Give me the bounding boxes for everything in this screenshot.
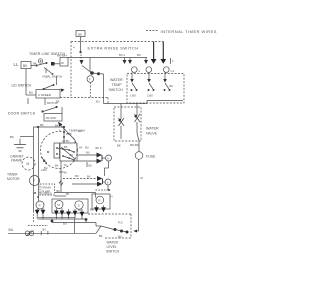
main box top edge: [34, 126, 65, 128]
svg-text:BK: BK: [90, 208, 94, 212]
vertical from terminal 6 down: [108, 161, 110, 168]
svg-text:VALVE: VALVE: [146, 132, 158, 136]
tick: [170, 58, 172, 64]
junction dot: [79, 51, 81, 53]
svg-text:WATER: WATER: [146, 127, 159, 131]
water valve feed line: [104, 103, 148, 105]
bus wire y57: [68, 57, 147, 59]
motor block box: [52, 199, 88, 213]
svg-text:BU: BU: [75, 174, 79, 178]
contacts in cam block: [56, 147, 58, 149]
svg-text:BU: BU: [29, 91, 33, 95]
svg-text:S: S: [78, 204, 80, 208]
svg-text:BU: BU: [96, 100, 100, 104]
cam block down wire: [60, 161, 62, 193]
svg-text:BK: BK: [57, 189, 61, 193]
junction blob: [51, 220, 54, 223]
svg-text:FUSE: FUSE: [146, 155, 156, 159]
drain pump dashed box: [40, 184, 55, 195]
coil 1: [118, 104, 124, 140]
svg-text:BU 6: BU 6: [96, 146, 102, 150]
stubs from arrows to bus: [36, 214, 38, 219]
svg-text:1 BU: 1 BU: [130, 94, 136, 98]
svg-text:1-2: 1-2: [170, 69, 174, 73]
diagonal wire to cam block: [58, 123, 75, 141]
timer dashed box left edge: [70, 42, 72, 97]
motor circle S: [75, 201, 83, 209]
water temp feed drops: [124, 58, 126, 61]
terminal box: [60, 58, 68, 67]
svg-text:H: H: [111, 195, 113, 199]
speed box: [36, 90, 60, 99]
svg-text:RD-BK: RD-BK: [130, 143, 139, 147]
svg-text:BU: BU: [137, 53, 141, 57]
svg-text:M: M: [27, 162, 30, 166]
timer dashed box bottom edge: [60, 97, 108, 99]
svg-text:LID SWITCH: LID SWITCH: [12, 84, 32, 88]
wire: [92, 73, 104, 74]
svg-text:BK: BK: [64, 145, 68, 149]
main box left edge: [33, 127, 35, 211]
internal timer wires leader: [146, 30, 158, 32]
svg-text:MOTOR: MOTOR: [7, 177, 20, 181]
svg-text:FRAME: FRAME: [11, 159, 22, 163]
motor R box: [92, 194, 110, 209]
svg-text:LEVEL: LEVEL: [107, 245, 117, 249]
wire LL down: [25, 69, 27, 96]
wire below speed box: [27, 98, 29, 104]
svg-text:BU: BU: [9, 228, 14, 232]
lamp wire down: [89, 82, 91, 97]
svg-text:BU: BU: [85, 146, 89, 150]
timer line switch blade: [31, 65, 37, 67]
LL terminal box: [21, 62, 31, 69]
water valve dashed box: [114, 107, 141, 141]
extra rinse switch blade: [82, 66, 91, 73]
terminal box BK top: [76, 31, 85, 37]
lower bus: [52, 222, 96, 224]
door switch assembly: [44, 98, 46, 105]
motor circle R: [96, 196, 104, 204]
svg-text:BK: BK: [55, 124, 59, 128]
svg-text:DOOR SWITCH: DOOR SWITCH: [8, 112, 36, 116]
svg-text:4A: 4A: [64, 163, 67, 167]
pump wires right: [55, 192, 96, 194]
cam feed wire: [63, 127, 65, 143]
svg-text:BU: BU: [89, 165, 93, 168]
svg-text:BU: BU: [63, 222, 67, 226]
svg-text:W: W: [61, 61, 64, 65]
svg-text:TIMER: TIMER: [7, 173, 18, 177]
water temp contacts 1: [130, 72, 138, 97]
svg-text:BK: BK: [10, 135, 14, 139]
svg-text:BK: BK: [117, 144, 121, 148]
motor circle P: [36, 201, 44, 209]
svg-text:4 BU: 4 BU: [41, 168, 47, 172]
svg-text:BK: BK: [87, 175, 91, 179]
svg-text:SWITCH: SWITCH: [109, 88, 124, 92]
fuse: [135, 152, 143, 160]
svg-text:INTERNAL TIMER WIRES: INTERNAL TIMER WIRES: [161, 29, 217, 34]
water temp terminal circles: [132, 67, 138, 73]
svg-text:4 SPEED: 4 SPEED: [38, 93, 52, 97]
wire to term box: [55, 63, 61, 65]
ps box dashed top: [88, 213, 131, 215]
svg-text:TEMP: TEMP: [112, 83, 123, 87]
cam switch rect B: [60, 143, 77, 161]
timer motor circle: [22, 157, 35, 170]
svg-text:BK: BK: [99, 234, 103, 238]
motor circle M1: [55, 201, 63, 209]
stubs above arrows: [36, 209, 38, 210]
svg-text:BK: BK: [66, 193, 70, 196]
svg-text:BU: BU: [118, 235, 122, 239]
svg-text:BK-WH: BK-WH: [57, 54, 67, 58]
inline connector: [25, 231, 30, 236]
water temp contacts 3: [163, 72, 173, 91]
term 5 to motor R: [107, 185, 109, 190]
extra rinse feed arrow: [80, 52, 82, 59]
timer dashed box top edge: [71, 41, 163, 43]
water temp switch dashed box: [127, 74, 184, 104]
svg-text:EXTRA RINSE SWITCH: EXTRA RINSE SWITCH: [88, 46, 139, 51]
fuse wire down: [138, 159, 140, 231]
svg-text:BU: BU: [86, 151, 90, 155]
svg-text:BU: BU: [64, 171, 68, 175]
wire to pump motor: [38, 127, 40, 201]
lid switch blade: [43, 88, 45, 90]
wire from BK box down: [80, 37, 82, 53]
svg-text:BU: BU: [43, 228, 47, 232]
motor switch dashed circle: [41, 132, 78, 169]
ground: [14, 145, 26, 152]
thick timer feed 2: [162, 42, 164, 60]
second pole: [45, 68, 47, 73]
left edge contacts: [41, 157, 45, 161]
svg-text:P.S.: P.S.: [118, 221, 123, 225]
extra rinse lamp: [87, 76, 94, 83]
svg-text:P: P: [33, 179, 35, 183]
wire down to valve line: [103, 74, 105, 104]
terminal 6 wires: [77, 154, 98, 156]
svg-text:1M SPD: 1M SPD: [46, 116, 56, 120]
svg-text:P: P: [39, 204, 41, 208]
coil 2: [134, 104, 140, 134]
svg-text:BU 4: BU 4: [119, 53, 125, 57]
drain pump motor circle: [30, 176, 40, 186]
double bottom bus: [38, 216, 75, 218]
svg-text:2 BU: 2 BU: [147, 94, 153, 98]
svg-text:4A BU: 4A BU: [62, 139, 69, 143]
timer line switch cam circle: [38, 59, 42, 63]
svg-text:4A: 4A: [79, 146, 82, 150]
bottom dashed: [28, 225, 48, 227]
svg-text:BU: BU: [70, 153, 74, 157]
junction dot: [90, 71, 94, 75]
arrows row: [35, 210, 40, 215]
svg-text:BU: BU: [170, 84, 174, 88]
bus to ps switch: [95, 223, 97, 227]
svg-text:BU: BU: [78, 208, 82, 212]
water level switch contacts: [96, 225, 101, 227]
svg-text:BK: BK: [40, 123, 44, 127]
junction dot right: [97, 72, 100, 75]
svg-text:SWITCH: SWITCH: [106, 250, 120, 254]
svg-text:LL: LL: [14, 62, 19, 67]
svg-text:WATER: WATER: [110, 78, 123, 82]
svg-text:BU: BU: [78, 129, 82, 133]
svg-text:2 BK: 2 BK: [66, 132, 72, 136]
thick timer feed 1: [153, 42, 155, 60]
cam switch rect A: [54, 143, 60, 158]
dashed drop from bottom edge: [107, 98, 109, 104]
svg-text:1M SPEED: 1M SPEED: [39, 193, 52, 196]
water temp contacts 2: [147, 72, 155, 97]
svg-text:F: F: [89, 77, 91, 81]
svg-text:BK: BK: [55, 164, 59, 168]
svg-text:WATER: WATER: [107, 241, 119, 245]
svg-text:UNBAL SWITCH: UNBAL SWITCH: [42, 75, 62, 79]
junction square: [51, 62, 55, 66]
svg-text:MOTOR: MOTOR: [47, 101, 58, 105]
drop to extra rinse contact: [89, 58, 91, 73]
terminal 5 wires: [63, 178, 98, 180]
